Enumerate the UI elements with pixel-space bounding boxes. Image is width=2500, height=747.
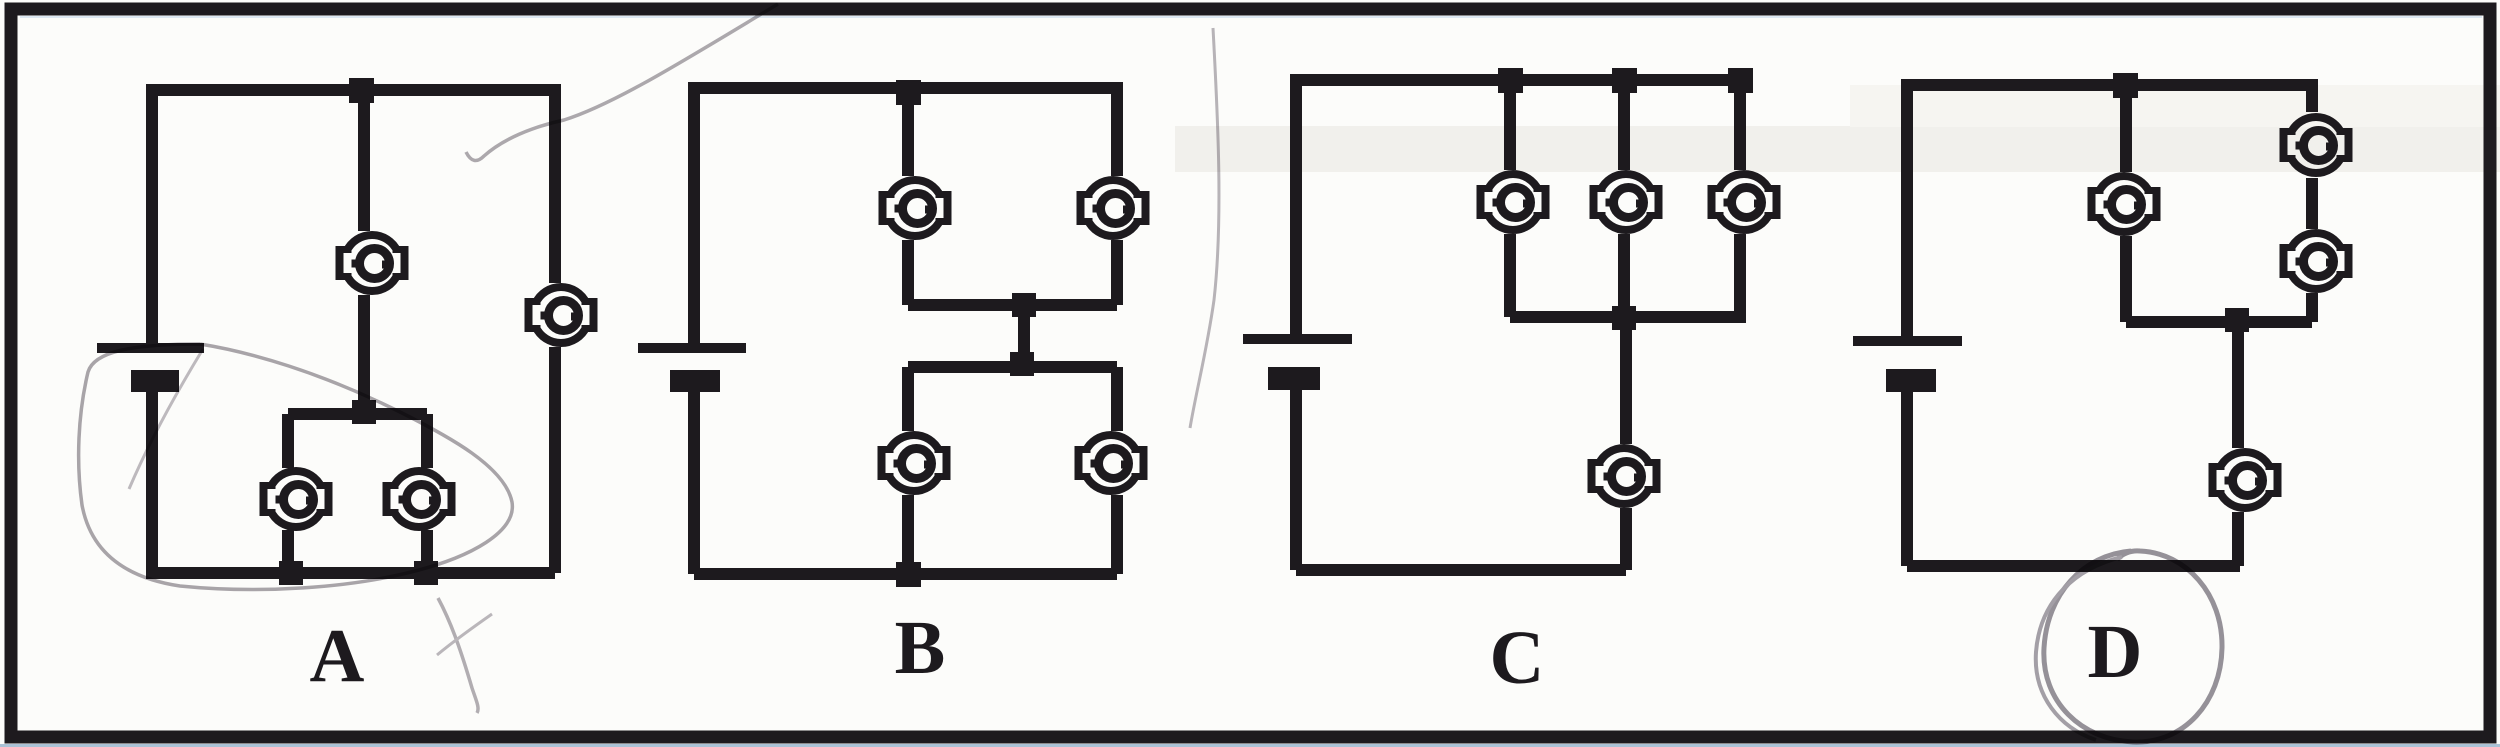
pencil circle second stroke D (2036, 557, 2122, 740)
wire A subloop left branch upper (282, 414, 294, 468)
wire B lower-left branch lower (902, 495, 914, 574)
wire B lower-right branch lower (1111, 495, 1123, 574)
wire A middle branch lower (358, 295, 370, 414)
battery A long terminal (97, 343, 204, 353)
wire D right branch upper (2306, 79, 2318, 112)
lamp B1 (879, 180, 952, 236)
wire C stem lower (1620, 508, 1632, 570)
svg-text:A: A (310, 614, 365, 698)
wire D left lower (1901, 392, 1913, 566)
lamp D3 (2280, 233, 2353, 289)
node C top junction 2 (1612, 68, 1637, 93)
wire B lower-right branch upper (1111, 367, 1123, 431)
node B top junction (896, 80, 921, 105)
node A mid junction (352, 400, 376, 424)
wire B left upper (688, 82, 700, 344)
wire A subloop top rail (288, 408, 427, 420)
wire B mid rail upper (908, 299, 1117, 311)
node A bottom-left junction (279, 561, 303, 585)
node C top junction 1 (1498, 68, 1523, 93)
battery B long terminal (638, 343, 746, 353)
lamp B4 (1075, 435, 1148, 491)
wire A top (152, 84, 555, 96)
lamp D4 (2209, 452, 2282, 508)
pencil loop around battery A (79, 344, 513, 590)
svg-text:B: B (895, 606, 946, 690)
node B mid junction upper (1012, 293, 1036, 317)
scan gray band faint upper (1850, 85, 2500, 127)
pencil crease between B and C (1190, 28, 1219, 428)
lamp C2 (1590, 174, 1663, 230)
wire D stem upper (2232, 322, 2244, 448)
wire C top (1296, 74, 1746, 86)
node D top junction (2113, 73, 2138, 98)
wire D right branch middle (2306, 178, 2318, 229)
lamp B3 (878, 435, 951, 491)
wire A left upper (146, 84, 158, 344)
wire B upper-left branch lower (902, 240, 914, 305)
wire A right branch upper (549, 84, 561, 283)
wire A left lower (146, 392, 158, 573)
lamp A2 (260, 471, 333, 527)
lamp A3 (383, 471, 456, 527)
wire C stem upper (1620, 317, 1632, 444)
lamp B2 (1077, 180, 1150, 236)
wire C left lower (1290, 390, 1302, 570)
lamp C3 (1708, 174, 1781, 230)
wire C mid rail (1510, 311, 1746, 323)
svg-text:D: D (2088, 610, 2143, 694)
wire C branch3 lower (1734, 234, 1746, 317)
pencil inner arc battery A (129, 349, 203, 489)
lamp A4 (525, 287, 598, 343)
node C mid junction (1612, 306, 1636, 330)
node C top junction 3 (1728, 68, 1753, 93)
lamp C4 (1588, 448, 1661, 504)
battery C long terminal (1243, 334, 1352, 344)
wire A subloop left branch lower (282, 530, 294, 573)
frame top blue scan fringe (20, 16, 2482, 18)
battery D short thick terminal (1886, 369, 1936, 392)
wire B top (694, 82, 1117, 94)
node A bottom-right junction (414, 561, 438, 585)
wire B upper-right branch lower (1111, 240, 1123, 305)
node B mid junction lower (1010, 352, 1034, 376)
wire B center link (1018, 305, 1030, 367)
wire A subloop right branch upper (421, 414, 433, 468)
wire D left branch lower (2120, 236, 2132, 322)
wire D left upper (1901, 79, 1913, 337)
wire B upper-right branch upper (1111, 82, 1123, 176)
wire D top (1907, 79, 2312, 91)
svg-text:C: C (1490, 616, 1545, 700)
battery A short thick terminal (131, 370, 179, 392)
frame bottom blue scan fringe (0, 744, 2500, 747)
lamp C1 (1477, 174, 1550, 230)
pencil s-curve below A (438, 598, 478, 713)
wire D mid rail (2126, 316, 2312, 328)
wire B upper-left branch upper (902, 88, 914, 176)
wire C left upper (1290, 74, 1302, 335)
node B bottom junction (896, 562, 921, 587)
lamp D2 (2280, 117, 2353, 173)
wire C branch2 lower (1618, 234, 1630, 317)
wire C branch3 upper (1734, 80, 1746, 170)
pencil cross stroke below A (437, 614, 492, 655)
node A top junction (349, 78, 374, 103)
wire C branch1 upper (1504, 80, 1516, 170)
battery D long terminal (1853, 336, 1962, 346)
lamp A1 (336, 235, 409, 291)
wire A right branch lower (549, 347, 561, 573)
wire C bottom (1296, 564, 1626, 576)
battery C short thick terminal (1268, 367, 1320, 390)
scan gray band right half (1175, 126, 2500, 172)
wire A middle branch upper (358, 90, 370, 231)
wire D stem lower (2232, 512, 2244, 566)
wire B bottom (694, 568, 1117, 580)
wire C branch1 lower (1504, 234, 1516, 317)
wire D right branch lower (2306, 293, 2318, 322)
wire B lower-left branch upper (902, 367, 914, 431)
wire A subloop right branch lower (421, 530, 433, 573)
battery B short thick terminal (670, 370, 720, 392)
pencil circle around label D (2044, 551, 2222, 742)
wire B left lower (688, 392, 700, 574)
lamp D1 (2088, 176, 2161, 232)
wire B mid rail lower (908, 361, 1117, 373)
node D mid junction (2225, 308, 2249, 332)
wire C branch2 upper (1618, 80, 1630, 170)
wire A bottom (146, 567, 555, 579)
wire D left branch upper (2120, 85, 2132, 172)
wire D bottom (1907, 560, 2240, 572)
pencil diagonal stroke upper A (466, 4, 778, 161)
